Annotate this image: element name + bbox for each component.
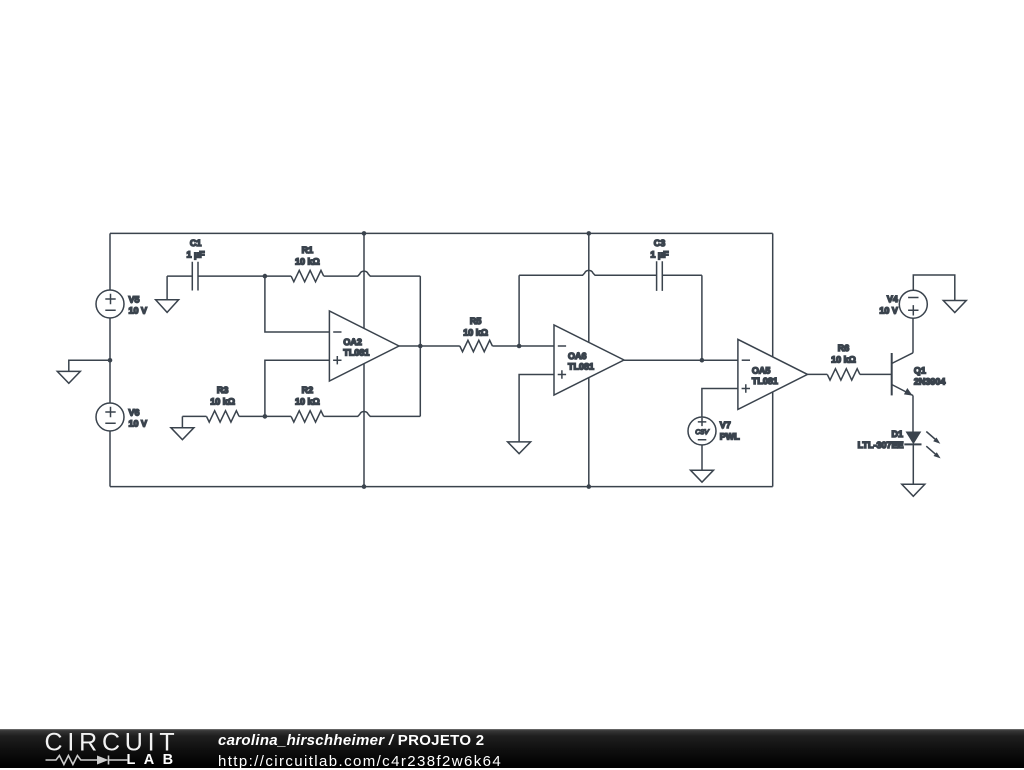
svg-text:V6: V6 [129,407,140,417]
svg-text:R2: R2 [302,385,314,395]
svg-text:TL081: TL081 [752,376,778,386]
node OA2 output junction [418,344,423,349]
op-amp OA6 [554,325,624,395]
svg-text:10 V: 10 V [129,306,148,316]
wire OA2 V- power pin [363,364,365,487]
svg-text:1 µF: 1 µF [650,250,669,260]
op-amp OA2 [329,311,399,381]
svg-text:10 kΩ: 10 kΩ [295,256,320,266]
resistor R3 [182,415,206,417]
ground for R3 [181,416,183,427]
ground for D1 [902,484,925,496]
wire C3 feedback left vertical [518,275,520,346]
wire OA6 output [624,359,738,361]
svg-text:PWL: PWL [720,431,740,441]
wire left rail mid segment [109,318,111,403]
resistor R2 [265,415,291,417]
svg-text:TL081: TL081 [343,348,369,358]
svg-text:TL081: TL081 [568,362,594,372]
node left rail ground junction [108,358,113,363]
wire OA2 output [399,345,460,347]
voltage source V4 [899,290,927,318]
svg-text:R6: R6 [838,343,850,353]
svg-text:V7: V7 [720,420,731,430]
wire hop over OA6 V+ pin [583,270,595,275]
wire ground tap [69,360,110,371]
node bottom rail OA6 junction [587,484,592,489]
svg-text:10 kΩ: 10 kΩ [463,327,488,337]
LED light arrow 2 [926,446,935,454]
wire OA5 V+ power pin [772,233,774,357]
wire C3 feedback right vertical [701,275,703,360]
wire feedback vertical R1-R2 [419,276,421,416]
svg-text:10 kΩ: 10 kΩ [831,355,856,365]
svg-text:LAB: LAB [127,752,182,768]
transistor Q1 [891,353,893,395]
voltage source V6 [96,403,124,431]
wire top rail [110,232,773,234]
wire non-inverting input branch [265,360,330,416]
svg-text:OA2: OA2 [343,337,362,347]
wire bottom rail [110,486,773,488]
node OA6 output/C3/OA5 inverting junction [700,358,705,363]
wire left rail bottom segment [109,431,111,487]
wire OA5 V- power pin [772,392,774,487]
svg-text:10 V: 10 V [129,419,148,429]
svg-text:10 V: 10 V [879,305,898,315]
wire hop over OA2 V+ pin [358,271,370,276]
svg-text:V4: V4 [887,294,898,304]
ground for V7 [691,470,714,482]
CircuitLab logo [0,729,200,768]
node R5/OA6 inverting/C3 junction [517,344,522,349]
voltage source V7 [688,417,716,445]
wire OA2 V+ power pin [363,233,365,328]
node C1/R1/inverting input junction [263,274,268,279]
resistor R5 [460,340,493,351]
wire V7 to ground [701,445,703,470]
node bottom rail OA2 junction [362,484,367,489]
svg-text:V5: V5 [129,294,140,304]
svg-text:CSV: CSV [695,429,709,436]
wire C3 feedback top [519,274,583,276]
svg-text:Q1: Q1 [914,365,926,375]
footer bar [0,729,1024,768]
capacitor C1 [167,275,265,277]
wire LED to ground [912,444,914,484]
node R3/R2/non-inverting junction [263,414,268,419]
wire inverting input branch [265,276,330,332]
wire OA5 output [808,373,828,375]
LED light arrow 1 [926,432,935,440]
wire OA5 non-inverting input branch [702,389,738,418]
wire V4 to ground [913,275,955,301]
svg-text:OA6: OA6 [568,351,587,361]
wire emitter to LED [912,396,914,432]
svg-text:R5: R5 [470,316,482,326]
op-amp OA5 [738,339,808,409]
svg-text:OA5: OA5 [752,366,771,376]
resistor R1 [265,275,291,277]
wire left rail top segment [109,233,111,290]
svg-text:R3: R3 [217,385,229,395]
wire OA6 V- power pin [588,378,590,487]
wire OA6 V+ power pin [588,233,590,342]
svg-text:2N3904: 2N3904 [914,377,946,387]
capacitor C3 [657,261,663,291]
LED D1 [906,432,922,445]
resistor R6 [827,369,860,380]
svg-text:LTL-307EE: LTL-307EE [858,440,904,450]
svg-text:1 µF: 1 µF [186,250,205,260]
wire hop over OA2 V- pin [358,411,370,416]
node top rail OA6 junction [587,231,592,236]
ground for V4 [943,301,966,313]
ground for C1 [166,276,168,300]
wire collector to V4 [912,318,914,353]
svg-text:10 kΩ: 10 kΩ [210,397,235,407]
svg-text:C3: C3 [654,238,666,248]
ground for OA6 non-inverting input [519,375,554,442]
svg-text:C1: C1 [190,238,202,248]
voltage source V5 [96,290,124,318]
node top rail OA2 junction [362,231,367,236]
ground left [57,371,80,383]
svg-text:10 kΩ: 10 kΩ [295,396,320,406]
svg-text:R1: R1 [302,245,314,255]
svg-text:D1: D1 [891,429,903,439]
